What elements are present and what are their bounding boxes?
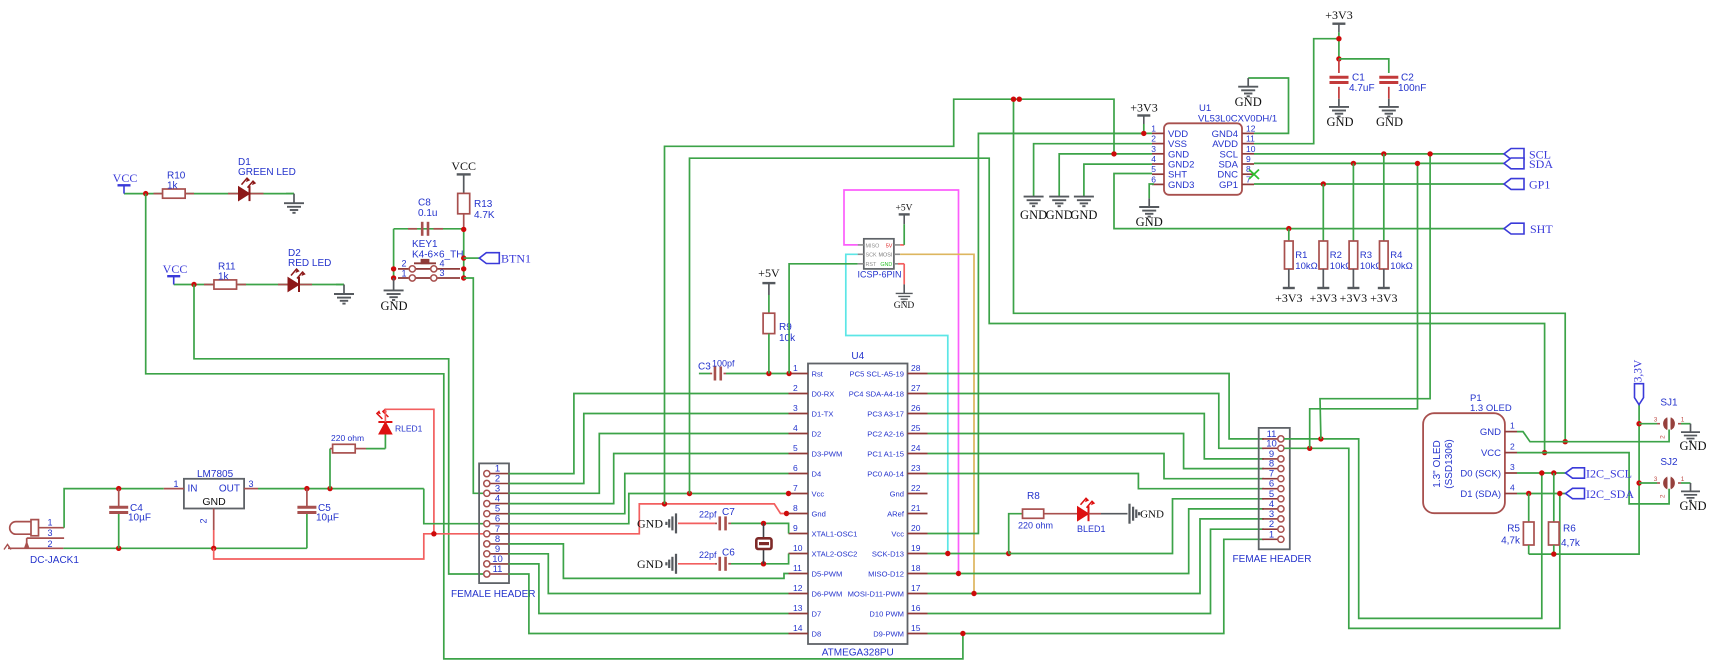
wire pin20 Vcc riser	[928, 133, 1144, 533]
wire 5V	[900, 244, 904, 246]
node junction red-gnd/U1VSS riser	[662, 501, 667, 506]
pin 9 FEMAE HEADER	[1262, 458, 1278, 460]
svg-text:D0 (SCK): D0 (SCK)	[1460, 469, 1501, 480]
svg-text:1k: 1k	[167, 181, 179, 192]
pin 3 FEMALE HEADER	[490, 492, 508, 494]
pin 7 FEMAE HEADER	[1262, 478, 1278, 480]
wire D1 net to D9 loop	[146, 194, 963, 659]
svg-text:GND: GND	[1235, 95, 1262, 109]
pin 18 U4 MISO-D12	[908, 573, 928, 575]
resistor R10	[154, 193, 163, 195]
svg-text:GND: GND	[1136, 215, 1163, 229]
svg-text:GP1: GP1	[1529, 178, 1550, 192]
wire pin28-femae11	[928, 374, 1265, 439]
svg-text:26: 26	[911, 403, 921, 413]
resistor R3	[1349, 241, 1358, 269]
wire MISO magenta	[844, 190, 959, 574]
node junction R3	[1351, 161, 1356, 166]
svg-text:GND: GND	[1480, 427, 1501, 438]
svg-text:D9-PWM: D9-PWM	[873, 630, 904, 639]
wire jack pin1 up	[64, 489, 164, 528]
ground (D2)	[336, 284, 344, 286]
svg-text:MISO-D12: MISO-D12	[868, 570, 904, 579]
ground (D1)	[286, 193, 294, 195]
node junction cyan end	[945, 551, 950, 556]
wire D1TX-female2	[508, 414, 788, 484]
pin 5 FEMALE HEADER	[490, 513, 508, 515]
svg-text:D1 (SDA): D1 (SDA)	[1460, 489, 1501, 500]
wire gnd red net	[214, 504, 789, 559]
ground (ICSP)	[903, 284, 905, 293]
svg-text:I2C_SDA: I2C_SDA	[1586, 487, 1634, 501]
pin 8 U1 DNC	[1242, 173, 1254, 175]
svg-text:+5V: +5V	[758, 266, 780, 280]
pin 22 U4 Gnd	[908, 493, 928, 495]
resistor R13	[458, 193, 470, 213]
svg-text:2: 2	[1660, 494, 1667, 498]
svg-text:6: 6	[793, 463, 798, 473]
pin 19 U4 SCK-D13	[908, 553, 928, 555]
svg-text:VCC: VCC	[113, 171, 138, 185]
ground (SJ2)	[1690, 483, 1692, 491]
wire out rail	[258, 488, 424, 490]
node junction OLED gnd	[1563, 439, 1568, 444]
flag SCL	[1504, 149, 1524, 160]
wire AVDD elbow	[1254, 39, 1339, 144]
node junction crystal bottom	[761, 561, 766, 566]
node junction R8 riser	[1006, 551, 1011, 556]
svg-text:C3: C3	[698, 362, 711, 373]
svg-text:VL53L0CXV0DH/1: VL53L0CXV0DH/1	[1198, 114, 1277, 125]
svg-text:220 ohm: 220 ohm	[1018, 521, 1053, 531]
wire R1 top	[1288, 229, 1290, 241]
pin 2 U1 VSS	[1152, 143, 1164, 145]
svg-text:9: 9	[793, 523, 798, 533]
ground (C2)	[1388, 99, 1390, 107]
wire VSS row	[1034, 144, 1152, 197]
svg-text:1: 1	[1681, 476, 1685, 483]
node junction femae11	[1318, 436, 1323, 441]
wire VDD row	[978, 132, 1152, 134]
pin 1 FEMAE HEADER	[1262, 538, 1278, 540]
svg-text:KEY1: KEY1	[412, 239, 438, 250]
svg-text:Rst: Rst	[812, 370, 824, 379]
ground (GND2)	[1074, 197, 1094, 207]
svg-text:24: 24	[911, 443, 921, 453]
svg-text:I2C_SCL: I2C_SCL	[1586, 467, 1632, 481]
pin 6 U1 GND3	[1152, 183, 1164, 185]
node junction RST-ICSP	[786, 371, 791, 376]
MCU U4 body	[808, 364, 908, 645]
svg-text:3: 3	[1151, 144, 1156, 154]
node junction SJ2-3	[1636, 480, 1641, 485]
flag GP1	[1504, 179, 1524, 190]
svg-text:2: 2	[401, 259, 406, 269]
svg-text:100pf: 100pf	[712, 359, 735, 369]
resistor R-220 (RLED1 series)	[329, 449, 331, 489]
svg-text:VCC: VCC	[451, 159, 476, 173]
svg-text:C7: C7	[722, 507, 735, 518]
svg-text:9: 9	[1246, 154, 1251, 164]
wire RST green	[789, 264, 858, 374]
svg-text:GREEN LED: GREEN LED	[238, 167, 296, 178]
svg-text:3: 3	[793, 403, 798, 413]
LED D2	[278, 284, 288, 286]
wire bottom gnd rail	[63, 547, 307, 549]
svg-text:+3V3: +3V3	[1275, 291, 1302, 305]
wire pin19-femae5	[1009, 499, 1264, 554]
wire pin17-femae3	[928, 519, 1265, 594]
pin 21 U4 ARef	[908, 513, 928, 515]
pin 11 FEMAE HEADER	[1262, 438, 1278, 440]
svg-text:D0-RX: D0-RX	[812, 390, 835, 399]
svg-text:8: 8	[793, 503, 798, 513]
svg-text:4,7k: 4,7k	[1561, 538, 1581, 549]
svg-text:1: 1	[1151, 123, 1156, 133]
svg-text:16: 16	[911, 603, 921, 613]
wire pin26-femae9	[928, 414, 1265, 459]
svg-text:17: 17	[911, 583, 921, 593]
wire D2-female3	[508, 434, 788, 494]
pin 13 U4 D7	[789, 613, 809, 615]
LED RLED1	[366, 448, 385, 450]
node junction SDA link	[1415, 161, 1420, 166]
svg-text:GND: GND	[1070, 208, 1097, 222]
svg-text:VCC: VCC	[1481, 448, 1501, 459]
ground (C1)	[1338, 99, 1340, 107]
node junction magenta end	[956, 571, 961, 576]
svg-text:21: 21	[911, 503, 921, 513]
svg-text:R9: R9	[779, 322, 792, 333]
svg-text:GND: GND	[1679, 499, 1706, 513]
svg-text:BTN1: BTN1	[501, 252, 531, 266]
flag I2C_SCL	[1566, 468, 1585, 478]
pin 6 FEMALE HEADER	[490, 523, 508, 525]
pin 14 U4 D8	[789, 633, 809, 635]
capacitor C8	[408, 228, 417, 230]
wire U1 SDA link down	[1310, 163, 1418, 448]
pin 23 U4 PC0 A0-14	[908, 473, 928, 475]
resistor R4	[1380, 241, 1389, 269]
svg-text:10kΩ: 10kΩ	[1295, 261, 1317, 272]
node junction 220ohm riser	[327, 486, 332, 491]
resistor R6	[1553, 473, 1555, 522]
svg-text:R8: R8	[1027, 491, 1040, 502]
svg-text:GND: GND	[880, 262, 892, 268]
wire	[174, 284, 344, 286]
svg-text:2: 2	[793, 383, 798, 393]
svg-text:GND: GND	[1020, 208, 1047, 222]
svg-text:19: 19	[911, 543, 921, 553]
svg-text:GND3: GND3	[1168, 180, 1194, 191]
node junctions KEY1	[391, 266, 396, 271]
wire Vcc riser to 3V3/OLED rail	[690, 158, 1545, 493]
svg-text:GND: GND	[1046, 208, 1073, 222]
node junction crystal top	[761, 521, 766, 526]
svg-text:GND: GND	[1376, 115, 1403, 129]
wire GND3	[1149, 184, 1154, 198]
flag 3,3V	[1635, 384, 1644, 405]
wire D2 net to female pin 11	[194, 285, 483, 575]
svg-text:IN: IN	[188, 484, 198, 495]
svg-text:1.3 OLED: 1.3 OLED	[1470, 403, 1512, 414]
svg-text:10µF: 10µF	[128, 513, 151, 524]
svg-text:220 ohm: 220 ohm	[331, 433, 364, 443]
wire female10-D7	[508, 564, 788, 614]
svg-text:D1-TX: D1-TX	[812, 410, 834, 419]
svg-text:12: 12	[793, 583, 803, 593]
svg-text:27: 27	[911, 383, 921, 393]
pin 17 U4 MOSI-D11-PWM	[908, 593, 928, 595]
pin 15 U4 D9-PWM	[908, 633, 928, 635]
wire SJ1 pin1 to gnd	[1681, 423, 1691, 425]
svg-text:C1: C1	[1352, 73, 1365, 84]
regulator LM7805	[184, 479, 244, 509]
svg-text:GND: GND	[637, 517, 663, 531]
node junction gnd rail	[1011, 97, 1016, 102]
svg-text:GND: GND	[1140, 509, 1164, 521]
LED BLED1	[1044, 513, 1078, 515]
pin 12 U4 D6-PWM	[789, 593, 809, 595]
svg-text:SCK: SCK	[866, 253, 877, 259]
wire pin18-femae4	[928, 509, 1265, 574]
svg-text:FEMAE HEADER: FEMAE HEADER	[1233, 554, 1312, 565]
node junction C4 bottom	[116, 546, 121, 551]
svg-text:+3V3: +3V3	[1370, 291, 1397, 305]
ground (SJ1)	[1690, 424, 1692, 432]
svg-text:4: 4	[439, 259, 444, 269]
wire R3 top	[1352, 163, 1354, 241]
node junction SJ1-3	[1636, 421, 1641, 426]
svg-text:12: 12	[1246, 123, 1256, 133]
node +3V3 (R2)	[1322, 269, 1324, 288]
pin 3 FEMAE HEADER	[1262, 518, 1278, 520]
svg-text:U4: U4	[851, 351, 864, 362]
capacitor C5	[306, 489, 308, 507]
svg-text:1.3" OLED: 1.3" OLED	[1432, 440, 1443, 487]
svg-text:11: 11	[493, 564, 503, 575]
node junction R9	[766, 371, 771, 376]
wire OLED pin3 row	[1517, 472, 1566, 474]
svg-text:11: 11	[1246, 134, 1255, 144]
svg-text:Vcc: Vcc	[891, 530, 904, 539]
svg-text:2: 2	[47, 539, 52, 549]
wire	[463, 229, 465, 278]
svg-text:4,7k: 4,7k	[1501, 536, 1521, 547]
wire femae10-OLED D1 loop	[1284, 448, 1560, 628]
pin 5 U4 D3-PWM	[789, 453, 809, 455]
wire R5/R6 bottom 3V3 rail	[1529, 405, 1639, 554]
svg-text:C2: C2	[1401, 73, 1414, 84]
wire SDA row	[1254, 162, 1504, 164]
svg-text:K4-6×6_TH: K4-6×6_TH	[412, 250, 463, 261]
pin 7 U1 GP1	[1242, 183, 1254, 185]
wire D4-female5	[508, 474, 788, 514]
svg-text:MOSI-D11-PWM: MOSI-D11-PWM	[848, 590, 904, 599]
svg-text:3: 3	[1510, 462, 1515, 472]
wire OLED pin2 vcc row	[1517, 453, 1669, 504]
pin 10 FEMAE HEADER	[1262, 447, 1278, 449]
svg-text:3: 3	[47, 528, 52, 538]
wire SJ2 pin1 to gnd	[1681, 482, 1691, 484]
pin 4 P1 D1 (SDA)	[1505, 493, 1517, 495]
wire female11-D8	[508, 574, 788, 634]
pin 5 U1 SHT	[1152, 173, 1164, 175]
svg-text:U1: U1	[1199, 103, 1211, 114]
svg-text:10: 10	[793, 543, 803, 553]
capacitor C3	[699, 373, 710, 375]
pin 24 U4 PC1 A1-15	[908, 453, 928, 455]
svg-text:PC3 A3-17: PC3 A3-17	[867, 410, 904, 419]
svg-text:2: 2	[1660, 435, 1667, 439]
wire C8 row	[394, 228, 464, 230]
node junction GND rail	[1111, 151, 1116, 156]
pin 2 P1 VCC	[1505, 452, 1517, 454]
wire	[124, 193, 294, 195]
svg-text:DC-JACK1: DC-JACK1	[30, 555, 79, 566]
wire D3-female4	[508, 454, 788, 504]
jumper SJ1	[1639, 423, 1657, 425]
pin 7 FEMALE HEADER	[490, 533, 508, 535]
svg-text:5: 5	[793, 443, 798, 453]
pin 11 U4 D5-PWM	[789, 573, 809, 575]
svg-text:C8: C8	[418, 198, 431, 209]
resistor R2	[1319, 241, 1328, 269]
pin 6 U4 D4	[789, 473, 809, 475]
node junction D9 loop	[960, 631, 965, 636]
wire GP1 row	[1254, 183, 1504, 185]
svg-text:+3V3: +3V3	[1130, 101, 1157, 115]
node junction SCL link	[1427, 151, 1432, 156]
wire female9-D6	[508, 554, 788, 594]
svg-text:3: 3	[248, 479, 253, 489]
pin 1 U4 Rst	[789, 373, 809, 375]
wire OLED pin1 gnd row	[1517, 430, 1669, 442]
svg-text:GND: GND	[1326, 115, 1353, 129]
node junction OLED vcc	[1542, 450, 1547, 455]
wire D0RX-female1	[508, 394, 788, 474]
svg-text:SDA: SDA	[1529, 157, 1553, 171]
wire 5V rail to female pin 6	[424, 489, 483, 524]
node junction	[143, 191, 148, 196]
node junction	[191, 282, 196, 287]
svg-text:R5: R5	[1507, 524, 1520, 535]
ground (C6)	[666, 554, 676, 574]
svg-text:Gnd: Gnd	[812, 510, 826, 519]
svg-text:ARef: ARef	[887, 510, 905, 519]
svg-text:GND: GND	[637, 557, 663, 571]
wire Vcc7-female6	[508, 494, 788, 524]
wire SCK cyan	[846, 254, 948, 553]
wire pin16-femae2	[928, 529, 1265, 613]
svg-text:MOSI: MOSI	[879, 253, 893, 259]
svg-text:5: 5	[1151, 164, 1156, 174]
svg-text:4.7uF: 4.7uF	[1349, 83, 1375, 94]
ground (C7)	[666, 513, 676, 533]
svg-text:2: 2	[1151, 134, 1156, 144]
node junction femae10	[1307, 446, 1312, 451]
sensor U1 body	[1164, 123, 1242, 195]
wire gnd riser to U1 rail	[665, 99, 1115, 504]
svg-text:4: 4	[1510, 483, 1515, 493]
wire OLED pin4 row	[1517, 493, 1566, 495]
svg-text:11: 11	[793, 563, 802, 573]
svg-text:ATMEGA328PU: ATMEGA328PU	[822, 648, 894, 659]
capacitor C1	[1338, 59, 1340, 73]
node junction orange end	[971, 591, 976, 596]
svg-text:10kΩ: 10kΩ	[1390, 261, 1412, 272]
svg-text:SCK-D13: SCK-D13	[872, 550, 904, 559]
pin 1 U1 VDD	[1152, 132, 1164, 134]
svg-text:15: 15	[911, 623, 921, 633]
pin 1 P1 GND	[1505, 431, 1517, 433]
svg-text:23: 23	[911, 463, 921, 473]
node junction Gnd8	[784, 511, 789, 516]
wire ICSP gnd	[898, 263, 904, 265]
svg-text:GP1: GP1	[1219, 180, 1238, 191]
wire femae11-OLED D0 loop	[1284, 439, 1542, 619]
node junction D1 loop	[1557, 491, 1562, 496]
svg-text:SHT: SHT	[1530, 222, 1553, 236]
wire pin19 row	[928, 553, 1009, 555]
svg-text:3: 3	[1654, 417, 1658, 424]
svg-text:ICSP-6PIN: ICSP-6PIN	[858, 270, 902, 280]
capacitor C7	[678, 522, 715, 524]
svg-text:VCC: VCC	[163, 262, 188, 276]
pin 20 U4 Vcc	[908, 533, 928, 535]
svg-text:3,3V: 3,3V	[1633, 359, 1645, 382]
svg-text:GND: GND	[1679, 439, 1706, 453]
crystal Y1	[763, 523, 765, 563]
wire R4 top	[1383, 154, 1385, 241]
pin 26 U4 PC3 A3-17	[908, 413, 928, 415]
svg-text:SJ2: SJ2	[1660, 457, 1678, 468]
svg-text:1: 1	[401, 269, 406, 279]
node junction R1 top	[1286, 226, 1291, 231]
node junction VDD	[1141, 131, 1146, 136]
svg-text:R3: R3	[1360, 250, 1372, 261]
node +5V (ICSP)	[903, 215, 905, 224]
svg-text:22: 22	[911, 483, 921, 493]
pin 10 U4 XTAL2-OSC2	[789, 553, 809, 555]
wire female8-D5	[508, 544, 788, 579]
ground (VSS)	[1024, 197, 1044, 207]
flag BTN1	[464, 257, 480, 259]
svg-text:SJ1: SJ1	[1660, 398, 1678, 409]
connector DC-JACK1	[4, 520, 64, 550]
wire GND2 row	[1084, 164, 1152, 197]
node +3V3 (R3)	[1352, 269, 1354, 288]
svg-text:GND: GND	[894, 301, 915, 311]
svg-text:1: 1	[173, 479, 178, 489]
svg-text:10µF: 10µF	[316, 513, 339, 524]
node +3V3 (R4)	[1383, 269, 1385, 288]
jumper SJ2	[1639, 482, 1657, 484]
pin 6 FEMAE HEADER	[1262, 488, 1278, 490]
wire SCL row	[1254, 153, 1504, 155]
svg-text:R6: R6	[1563, 524, 1576, 535]
wire RLED1 red net	[385, 409, 434, 534]
pin 2 U4 D0-RX	[789, 393, 809, 395]
svg-text:XTAL2-OSC2: XTAL2-OSC2	[812, 550, 858, 559]
pin 2 FEMAE HEADER	[1262, 528, 1278, 530]
svg-text:8: 8	[1246, 164, 1251, 174]
node junction R6 bottom	[1551, 551, 1556, 556]
pin 7 U4 Vcc	[789, 493, 809, 495]
connector FEMAE HEADER	[1259, 428, 1290, 549]
pin 8 FEMAE HEADER	[1262, 468, 1278, 470]
node junction D0 loop	[1539, 470, 1544, 475]
